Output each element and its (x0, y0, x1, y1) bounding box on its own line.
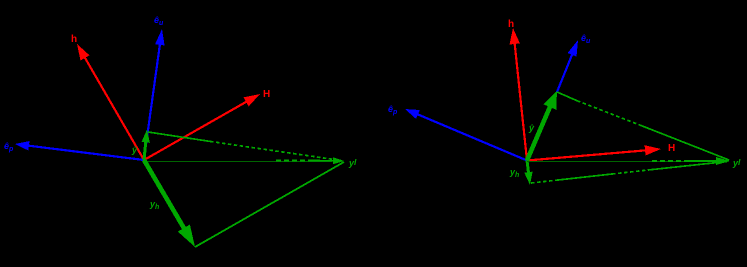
right view group (388, 19, 741, 185)
svg-text:ŷ: ŷ (131, 145, 138, 155)
bottom triangle edge (left view) (195, 162, 344, 247)
line from up-arrow tip to right vertex solid part (left view) (148, 132, 210, 141)
bright green arrow into right vertex (right view) (688, 157, 730, 165)
red vector H (left view) (144, 94, 260, 160)
dark green line origin to right vertex (left view) (144, 161, 332, 163)
red vector H (right view) (527, 145, 661, 160)
blue unit vector e_u (left view) (144, 29, 165, 159)
svg-text:h: h (71, 34, 77, 45)
top triangle edge solid part 2 (right view) (640, 125, 729, 160)
small green up arrow (left view) (142, 130, 150, 161)
bottom line solid part 1 (right view) (558, 174, 612, 180)
bottom line solid part 2 (right view) (648, 162, 727, 171)
red angular momentum h (right view) (510, 28, 528, 161)
blue unit vector e_p (left view) (15, 141, 144, 160)
svg-text:h: h (508, 19, 514, 30)
svg-text:yl: yl (348, 157, 357, 168)
bright green dashed overlay near right vertex (right view) (652, 160, 688, 162)
line from up-arrow tip to right vertex dashed part (left view) (210, 141, 341, 160)
small green down arrow (right view) (524, 161, 532, 186)
bright green dashed overlay near right vertex (left view) (276, 160, 310, 162)
svg-text:yl: yl (732, 157, 741, 168)
blue unit vector e_u (right view) (557, 40, 578, 92)
top triangle edge dashed part (right view) (577, 101, 640, 125)
top triangle edge solid part (right view) (557, 92, 577, 101)
red angular momentum h (left view) (77, 44, 144, 160)
svg-text:H: H (668, 143, 675, 154)
svg-text:ŷ: ŷ (528, 123, 535, 133)
dark green line origin to right vertex (right view) (527, 161, 695, 163)
svg-text:H: H (263, 89, 270, 100)
bottom line dashed part 2 (right view) (612, 170, 648, 174)
left view group (4, 15, 357, 247)
bottom line dashed part 1 (right view) (531, 180, 558, 183)
bright green arrow into right vertex (left view) (310, 157, 344, 164)
thick green vector y (right view) (527, 91, 557, 161)
blue unit vector e_p (right view) (405, 109, 527, 161)
thick green vector y_h (left view) (144, 160, 195, 247)
